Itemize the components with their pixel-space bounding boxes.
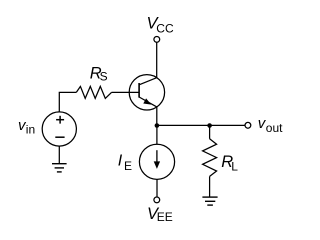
terminal v_out (open circle) <box>245 122 251 128</box>
wire: R_L node down to zigzag <box>209 126 211 139</box>
wire: R_L to ground <box>209 176 211 197</box>
transistor collector diagonal <box>139 78 157 85</box>
label V_EE <box>147 205 173 224</box>
emitter arrow <box>143 98 151 104</box>
terminal V_CC (open circle) <box>154 37 160 43</box>
terminal V_EE (open circle) <box>154 197 160 203</box>
label V_CC <box>147 15 174 36</box>
wire: collector up to V_CC terminal <box>156 42 158 77</box>
svg-text:E: E <box>124 159 132 173</box>
wire: node down to current source <box>156 126 158 145</box>
voltage source v_in (circle) <box>42 112 76 146</box>
minus sign inside source <box>55 136 64 138</box>
wire: emitter down to node <box>156 107 158 126</box>
resistor R_L (vertical zigzag) <box>203 139 217 177</box>
label v_in <box>18 117 35 137</box>
wire: node to v_out terminal <box>157 124 245 126</box>
label R_S <box>90 65 108 84</box>
svg-text:EE: EE <box>157 210 173 224</box>
wire: source top up and right to R_S <box>59 92 76 112</box>
transistor Q1 (npn) circle <box>129 75 164 110</box>
junction dot at R_L branch <box>207 123 212 128</box>
wire: current source down to V_EE terminal <box>156 179 158 197</box>
current source arrow (down) <box>154 150 160 169</box>
ground under R_L <box>202 197 217 205</box>
ground under source <box>52 164 67 172</box>
plus sign inside source <box>56 116 64 124</box>
wire: source bottom to ground <box>58 146 60 164</box>
wire: R_S to transistor base <box>112 91 139 93</box>
svg-text:out: out <box>266 121 283 135</box>
transistor base bar <box>138 83 140 98</box>
current source I_E (circle) <box>139 144 174 179</box>
label I_E <box>118 152 132 173</box>
svg-text:in: in <box>26 123 35 137</box>
label v_out <box>258 115 283 135</box>
resistor R_S (zigzag) <box>76 86 111 98</box>
svg-text:L: L <box>231 159 238 173</box>
svg-text:S: S <box>100 70 108 84</box>
svg-text:CC: CC <box>156 21 174 35</box>
svg-text:I: I <box>118 152 123 169</box>
junction dot at emitter node <box>155 123 160 128</box>
label R_L <box>221 153 238 173</box>
transistor emitter diagonal <box>139 97 157 107</box>
